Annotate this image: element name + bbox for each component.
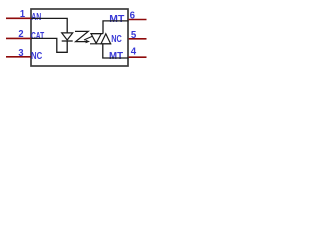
svg-text:5: 5 [131,30,137,41]
svg-text:MT: MT [109,51,123,62]
svg-text:NC: NC [111,34,122,45]
svg-text:6: 6 [130,11,136,22]
pin 3 NC wire stub [6,56,31,58]
svg-text:3: 3 [18,48,24,59]
svg-text:4: 4 [131,47,137,58]
triac Q1: left triangle (down) [91,34,101,44]
wire cathode: LED bottom to pin2 [31,38,67,52]
svg-text:MT: MT [109,14,124,25]
light arrow (zigzag with head) from LED to triac [75,31,88,41]
triac Q1: right triangle (up) [101,34,111,44]
triac Q1: top bar [90,33,103,35]
opto-triac U1 body [31,9,128,66]
wire MT bottom: triac bottom to pin4 [103,44,129,58]
svg-text:AN: AN [31,12,41,23]
pin 6 MT wire stub [129,19,147,21]
wire anode: pin1 to LED top [31,18,67,32]
pin 5 NC wire stub [129,38,147,40]
svg-text:1: 1 [20,9,26,20]
LED D1 (triangle + cathode bar) [62,33,73,40]
svg-text:2: 2 [18,29,24,40]
wire MT top: pin6 to triac top [103,21,129,34]
pin 4 MT wire stub [129,56,147,58]
svg-text:NC: NC [31,51,42,62]
triac Q1: bottom bar [90,43,111,45]
svg-text:CAT: CAT [31,31,44,42]
pin 1 AN wire stub [6,17,31,19]
pin 2 CAT wire stub [6,37,31,39]
